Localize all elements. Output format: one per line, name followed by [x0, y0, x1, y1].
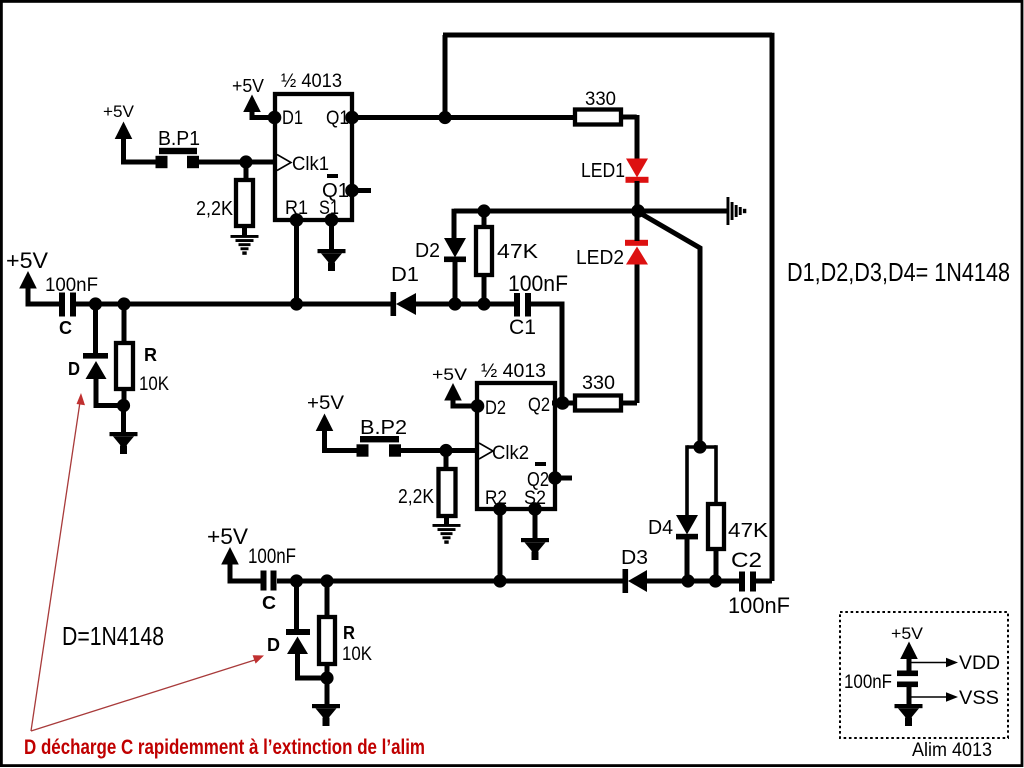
node LED junction: [631, 204, 645, 218]
svg-text:D=1N4148: D=1N4148: [62, 621, 164, 651]
wire D2 to bus: [453, 261, 458, 304]
overline Q1bar: [327, 174, 338, 178]
wire C1 out to Q2: [531, 304, 562, 400]
wire C2 to right vertical: [755, 579, 772, 584]
svg-text:100nF: 100nF: [45, 275, 98, 296]
arrow to VSS: [911, 696, 947, 698]
capacitor C (bottom): [261, 571, 267, 591]
wire B.P1 to Clk1: [199, 160, 275, 165]
svg-text:330: 330: [582, 373, 615, 394]
wire top rail: [443, 33, 772, 38]
wire B.P1 +5V elbow: [124, 136, 157, 162]
node D4-47K junction: [693, 440, 706, 453]
svg-text:VSS: VSS: [959, 688, 999, 709]
wire Q2 stub: [552, 401, 575, 406]
svg-text:Q2: Q2: [528, 395, 550, 416]
node D bottom branch: [290, 574, 303, 587]
wire B.P2 +5V elbow: [325, 428, 358, 451]
pin Q1 node: [345, 111, 359, 125]
wire FF1 +5V to D1: [252, 110, 273, 118]
pin S1 node: [325, 213, 339, 227]
pin D1 node: [268, 111, 282, 125]
pushbutton B.P2: [360, 436, 399, 442]
clock wedge Clk2: [479, 443, 493, 459]
ground under 2,2K (1): [231, 235, 259, 255]
svg-text:C: C: [262, 593, 276, 613]
svg-text:100nF: 100nF: [728, 593, 790, 618]
node 47K bus: [709, 574, 722, 587]
svg-text:+5V: +5V: [207, 524, 248, 549]
wire join to ground bottom: [325, 678, 330, 705]
svg-text:Clk2: Clk2: [492, 443, 529, 464]
power arrow B.P1: [115, 122, 133, 140]
svg-text:330: 330: [585, 89, 616, 110]
svg-text:2,2K: 2,2K: [196, 198, 234, 220]
svg-text:B.P1: B.P1: [158, 128, 200, 150]
svg-text:D1: D1: [391, 264, 419, 286]
resistor 2,2K (1): [244, 162, 249, 180]
node 47K bus: [477, 297, 490, 310]
wire Alim bottom stem: [907, 687, 912, 704]
svg-text:+5V: +5V: [432, 365, 468, 384]
resistor 2,2K (2): [444, 451, 449, 470]
power arrow B.P2: [316, 414, 334, 432]
wire +5V bottom stem: [230, 562, 261, 581]
svg-text:D3: D3: [621, 547, 648, 569]
svg-text:D1: D1: [282, 108, 303, 129]
wire D branch drop: [93, 304, 98, 353]
svg-text:B.P2: B.P2: [360, 417, 407, 439]
wire LED1 to junction: [635, 181, 640, 211]
wire B.P2 to Clk2: [401, 448, 477, 453]
power arrow FF1: [243, 95, 261, 113]
wire R2 drop: [498, 509, 503, 581]
node Clk2 junction: [439, 444, 452, 457]
node Q1 rail junction: [438, 111, 451, 124]
node R branch: [117, 297, 130, 310]
Alim 4013 dashed box: [840, 612, 1008, 738]
svg-text:½ 4013: ½ 4013: [281, 71, 342, 92]
node D4 bus: [681, 574, 694, 587]
wire Alim top stem: [907, 656, 912, 671]
wire D4 bottom: [685, 538, 690, 581]
resistor R (bottom): [325, 581, 330, 617]
pin Q2bar node and stub: [548, 471, 562, 485]
wire 330 out: [621, 401, 637, 406]
svg-text:D: D: [267, 635, 280, 655]
svg-text:D: D: [68, 359, 80, 379]
diode D1: [391, 292, 397, 316]
svg-text:VDD: VDD: [959, 653, 1000, 674]
diode D3: [623, 569, 629, 593]
svg-text:47K: 47K: [728, 520, 769, 542]
resistor R (left): [122, 304, 127, 343]
node D-R join bottom: [320, 671, 333, 684]
power arrow Alim: [900, 642, 918, 660]
resistor 330 (top): [575, 110, 621, 125]
ground under D-R join: [110, 432, 138, 454]
pushbutton B.P1: [159, 148, 197, 154]
node R1 bus: [290, 297, 303, 310]
svg-text:C1: C1: [509, 316, 536, 339]
svg-text:+5V: +5V: [307, 393, 344, 414]
power arrow bottom: [221, 547, 239, 565]
capacitor C1: [514, 293, 520, 317]
op-amp U2 flip-flop 1/2 4013 box: [477, 383, 555, 509]
power arrow FF2: [444, 383, 462, 401]
resistor 47K (top): [482, 211, 487, 227]
pin S2 node: [528, 502, 542, 516]
node D-R join: [117, 399, 130, 412]
svg-text:47K: 47K: [497, 241, 539, 263]
ground (rotated) at mid rail: [727, 197, 747, 225]
overline Q2bar: [535, 462, 546, 466]
wire right vertical: [770, 33, 775, 581]
wire mid rail: [454, 209, 727, 214]
wire R1 drop: [294, 220, 299, 304]
svg-text:D1,D2,D3,D4= 1N4148: D1,D2,D3,D4= 1N4148: [787, 257, 1010, 287]
pin Q2 node: [556, 396, 570, 410]
wire +5V left elbow: [28, 286, 59, 304]
node D branch: [89, 297, 102, 310]
wire bus2 right: [645, 579, 740, 584]
svg-text:100nF: 100nF: [248, 545, 296, 568]
diode D2: [444, 238, 466, 258]
svg-text:+5V: +5V: [232, 76, 264, 96]
clock wedge Clk1: [277, 155, 291, 171]
wire rail to Q1 node: [443, 35, 448, 118]
wire cross branch: [687, 445, 716, 449]
wire FF2 +5V to D2: [453, 398, 475, 406]
ground under D-R join bottom: [312, 704, 340, 726]
svg-text:+5V: +5V: [103, 102, 135, 121]
wire D4 top: [685, 445, 689, 515]
svg-text:100nF: 100nF: [844, 672, 892, 693]
svg-text:C2: C2: [731, 549, 762, 572]
wire LED1 feed: [635, 115, 640, 159]
node R2 bus: [493, 574, 506, 587]
svg-text:10K: 10K: [139, 374, 169, 395]
wire bus1 left: [76, 302, 396, 307]
wire LED2 top link: [635, 211, 640, 241]
svg-text:D4: D4: [648, 517, 673, 539]
svg-text:Alim 4013: Alim 4013: [912, 740, 992, 761]
svg-text:D décharge C rapidemment à l’e: D décharge C rapidemment à l’extinction …: [24, 736, 425, 759]
op-amp U1 flip-flop 1/2 4013 box: [275, 94, 352, 220]
pin R1 node: [290, 213, 304, 227]
diode D4: [676, 515, 698, 535]
wire D bottom to join: [298, 652, 328, 678]
pin Q1bar node and stub: [345, 184, 359, 198]
svg-text:R: R: [343, 623, 355, 643]
ground under 2,2K (2): [433, 524, 461, 544]
svg-text:R: R: [144, 345, 157, 365]
power arrow left: [19, 271, 37, 289]
wire LED2 feed: [635, 264, 640, 403]
red annotation line to D bottom: [31, 659, 258, 731]
wire Q1 output: [352, 115, 575, 120]
pin R2 node: [493, 502, 507, 516]
wire bus1 mid: [414, 302, 514, 307]
capacitor C (left): [59, 293, 65, 317]
ground under S1: [318, 249, 346, 271]
resistor 330 (bottom): [575, 396, 621, 411]
svg-text:Clk1: Clk1: [292, 154, 329, 175]
red annotation line to D left: [31, 402, 80, 731]
ground under S2: [521, 538, 549, 560]
svg-text:+5V: +5V: [6, 248, 48, 273]
svg-text:D2: D2: [485, 398, 506, 419]
node R bottom branch: [320, 574, 333, 587]
svg-text:D2: D2: [415, 240, 440, 262]
svg-text:½ 4013: ½ 4013: [481, 361, 546, 382]
node 47K top junction: [477, 204, 490, 217]
wire D2 drop: [452, 209, 457, 238]
ground Alim: [895, 704, 923, 726]
capacitor 100nF Alim: [897, 671, 918, 677]
node D2 bus: [448, 297, 461, 310]
diode D (left): [83, 353, 108, 359]
wire bus2 left: [277, 579, 624, 584]
wire diagonal to D4 branch: [639, 213, 700, 448]
LED1: [626, 159, 648, 178]
node Clk1 junction: [239, 155, 252, 168]
svg-text:C: C: [59, 318, 72, 338]
wire S1 drop: [329, 220, 334, 250]
wire D bottom drop: [294, 581, 299, 629]
wire 330 to LED1 corner: [621, 115, 637, 120]
wire join to ground: [121, 406, 126, 434]
LED2: [626, 247, 648, 265]
svg-text:2,2K: 2,2K: [398, 486, 435, 508]
arrow to VDD: [911, 662, 947, 664]
svg-text:LED2: LED2: [576, 247, 624, 269]
svg-text:+5V: +5V: [891, 624, 924, 643]
capacitor C2: [739, 572, 745, 592]
pin D2 node: [471, 399, 485, 413]
wire S2 drop: [533, 509, 538, 539]
svg-text:LED1: LED1: [581, 160, 625, 182]
resistor 47K (bottom): [714, 445, 718, 504]
svg-text:10K: 10K: [342, 644, 372, 665]
wire D to join: [96, 377, 124, 406]
diode D (bottom): [286, 629, 310, 635]
svg-text:100nF: 100nF: [508, 271, 568, 296]
